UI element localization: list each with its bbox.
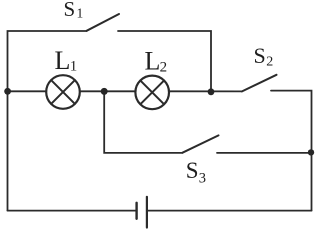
svg-text:L: L <box>145 47 161 76</box>
svg-text:3: 3 <box>199 171 206 187</box>
svg-text:S: S <box>254 43 266 68</box>
svg-text:L: L <box>55 46 71 75</box>
svg-text:2: 2 <box>266 54 273 69</box>
svg-text:S: S <box>64 0 76 21</box>
svg-text:2: 2 <box>160 59 168 75</box>
svg-text:1: 1 <box>70 58 78 74</box>
svg-text:1: 1 <box>77 6 84 21</box>
svg-text:S: S <box>186 158 199 183</box>
